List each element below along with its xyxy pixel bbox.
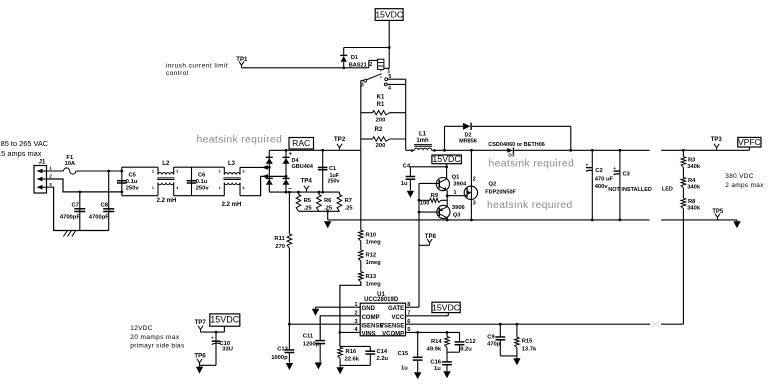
heatsink required label (diode): [489, 158, 575, 169]
wire L3 to bridge AC2: [240, 175, 287, 196]
svg-text:2 amps max: 2 amps max: [725, 182, 764, 189]
divider resistor R4 340k: [681, 167, 701, 191]
wire VCC pin to 15VDC: [406, 313, 449, 316]
svg-text:1: 1: [49, 166, 52, 171]
svg-text:J1: J1: [39, 159, 46, 165]
svg-text:VCOMP: VCOMP: [382, 331, 404, 337]
svg-text:Q2: Q2: [489, 182, 497, 188]
svg-text:340k: 340k: [687, 185, 701, 191]
svg-text:1200p: 1200p: [303, 342, 320, 348]
gap crossing mark: [652, 321, 660, 327]
svg-text:R14: R14: [431, 339, 442, 345]
chassis ground (earth hatch): [63, 231, 75, 237]
bridge rectifier D4 GBU404: [266, 149, 314, 194]
test point TP8: [419, 234, 436, 246]
svg-text:D2: D2: [464, 132, 471, 138]
svg-text:C12: C12: [465, 339, 476, 345]
capacitor C13 1000p: [271, 324, 294, 362]
svg-text:C8: C8: [101, 202, 109, 208]
svg-text:UCC28019D: UCC28019D: [364, 297, 399, 303]
svg-text:C6: C6: [198, 173, 206, 179]
svg-text:1meg: 1meg: [366, 240, 382, 246]
svg-text:3: 3: [242, 169, 244, 173]
wire 15VDC to relay coil: [388, 20, 391, 68]
capacitor C6 0.1u 250v: [187, 167, 210, 196]
capacitor C7 4700pF: [60, 192, 85, 231]
svg-text:3: 3: [473, 200, 476, 206]
alternate diode note CSD04060 or BETH06: [488, 142, 545, 148]
svg-text:C11: C11: [303, 334, 314, 340]
svg-text:470 uF: 470 uF: [595, 176, 614, 182]
wire J1 pin3 earth: [47, 187, 109, 230]
wire driver supply node: [410, 165, 448, 168]
svg-text:1000p: 1000p: [271, 355, 288, 361]
svg-text:C9: C9: [487, 334, 495, 340]
ground arrow under C16: [443, 371, 450, 378]
svg-text:Q1: Q1: [452, 175, 461, 181]
wire boost node up to D2: [445, 126, 463, 150]
svg-text:49.9k: 49.9k: [427, 346, 442, 352]
fuse F1 10A: [64, 155, 76, 174]
wire GATE pin to driver: [406, 306, 420, 308]
svg-text:C14: C14: [377, 349, 388, 355]
svg-text:TP5: TP5: [712, 209, 724, 215]
wire L2 to C6 bottom: [174, 195, 192, 197]
divider resistor R8 340k: [681, 188, 701, 212]
capacitor C9 470p: [487, 324, 505, 356]
capacitor C11 1200p: [303, 334, 325, 362]
resistor R11 270: [274, 192, 291, 324]
output rail after LED gap: [661, 149, 749, 152]
power MOSFET Q2 FDP20N50F: [464, 150, 516, 220]
svg-text:1meg: 1meg: [366, 282, 382, 288]
wire TP7 to bias node: [201, 331, 225, 334]
ISENSE line: [288, 323, 356, 326]
svg-text:33U: 33U: [222, 347, 233, 353]
svg-text:0.1u: 0.1u: [196, 179, 208, 185]
bias supply note 12VDC: [130, 325, 185, 349]
ground arrow under R16: [336, 365, 343, 374]
svg-text:GATE: GATE: [388, 306, 404, 312]
relay block left rail: [360, 81, 362, 151]
svg-text:1u: 1u: [434, 366, 441, 372]
capacitor C1 1uF 250v: [318, 150, 340, 192]
VCOMP line: [406, 331, 460, 334]
resistor R16 22.6k: [338, 346, 371, 365]
test point TP7: [195, 319, 207, 332]
output rail to LED gap: [571, 149, 650, 151]
relay K1 label: [377, 94, 385, 100]
svg-text:15VDC: 15VDC: [432, 154, 461, 164]
wire divider to VSENSE line: [661, 209, 683, 325]
svg-text:L2: L2: [162, 161, 170, 167]
bulk capacitor C2 470uF 400v: [585, 149, 613, 220]
svg-text:250v: 250v: [328, 179, 340, 185]
svg-text:R10: R10: [366, 232, 377, 238]
svg-text:TP6: TP6: [194, 353, 206, 360]
svg-text:RAC: RAC: [292, 138, 310, 148]
divider resistor R3 340k: [681, 150, 701, 170]
transistor Q1 3904: [436, 167, 467, 196]
svg-text:10A: 10A: [64, 161, 75, 167]
diode D1 BAS21: [340, 55, 367, 68]
svg-text:200: 200: [376, 118, 386, 124]
alternate boost diode D3: [507, 148, 515, 159]
svg-text:340k: 340k: [687, 205, 701, 211]
svg-text:D1: D1: [351, 55, 358, 61]
svg-text:250v: 250v: [196, 186, 210, 192]
wire C5 to L2 top: [122, 166, 158, 168]
relay actuator dashed link: [380, 70, 382, 79]
test point TP3: [711, 137, 723, 150]
svg-text:2.2u: 2.2u: [377, 356, 389, 362]
resistor R1 200: [361, 102, 406, 124]
connector J1: [34, 159, 52, 193]
svg-text:3: 3: [176, 169, 178, 173]
svg-text:R11: R11: [274, 236, 285, 242]
transistor Q3 3906: [419, 196, 466, 220]
svg-text:1: 1: [218, 186, 220, 190]
wire bridge - rail: [269, 191, 339, 194]
power ground arrow at shunt node: [324, 221, 331, 228]
svg-text:1: 1: [152, 186, 154, 190]
svg-text:470p: 470p: [487, 342, 501, 348]
svg-text:4.5 amps max: 4.5 amps max: [0, 149, 42, 158]
ground arrow under C15: [414, 372, 421, 379]
wire D2 to output rail: [472, 126, 572, 151]
svg-text:+: +: [585, 163, 588, 168]
15VDC supply box (gate driver): [432, 154, 462, 167]
source/return rail: [328, 219, 737, 222]
svg-text:C3: C3: [623, 172, 631, 178]
svg-text:3904: 3904: [453, 182, 467, 188]
svg-text:C7: C7: [72, 202, 79, 208]
svg-text:C2: C2: [595, 168, 602, 174]
svg-text:primayr side bias: primayr side bias: [130, 342, 185, 349]
svg-text:8.2u: 8.2u: [460, 346, 472, 352]
svg-text:1mh: 1mh: [416, 138, 429, 144]
wire C6 to L3 top: [192, 166, 225, 168]
common-mode choke L3 2.2mH: [218, 161, 245, 208]
capacitor C15 1u: [398, 332, 423, 372]
svg-text:VINS: VINS: [362, 331, 376, 337]
svg-text:1meg: 1meg: [366, 260, 382, 266]
wire J1 pin1 to fuse: [47, 170, 64, 172]
wire gate node to Q2: [446, 190, 467, 197]
svg-text:+: +: [211, 336, 214, 341]
svg-text:2: 2: [218, 169, 220, 173]
svg-text:K1: K1: [377, 94, 385, 100]
svg-text:100: 100: [420, 201, 429, 207]
svg-text:2.2 mH: 2.2 mH: [157, 198, 177, 204]
svg-text:R13: R13: [366, 274, 377, 280]
wire to D1 cathode: [344, 48, 390, 56]
shunt resistor R7 .25: [337, 192, 353, 211]
15VDC supply box (top): [375, 9, 403, 21]
svg-text:L3: L3: [228, 161, 236, 167]
capacitor C16 1u: [430, 352, 452, 372]
wire C6 to L3 bottom: [192, 195, 225, 197]
svg-text:TP4: TP4: [301, 177, 313, 184]
output ground arrow: [733, 220, 740, 228]
svg-text:1u: 1u: [401, 365, 408, 371]
capacitor C14 2.2u: [365, 346, 388, 365]
ground arrow under R15: [513, 356, 520, 365]
C9/R15 bottom bar: [500, 355, 517, 357]
svg-text:C16: C16: [430, 360, 441, 366]
boost inductor L1 1mh: [411, 132, 437, 153]
svg-text:2: 2: [369, 62, 372, 68]
VSENSE line: [406, 323, 651, 326]
resistor R9 100: [419, 193, 447, 207]
wire C10 to TP6: [200, 364, 217, 366]
wire divider to VINS: [339, 282, 361, 347]
resistor R2 200: [361, 127, 406, 149]
svg-text:15VDC: 15VDC: [210, 315, 240, 325]
svg-text:15VDC: 15VDC: [432, 303, 460, 313]
bridge AC2 pin arrow: [262, 174, 268, 179]
common-mode choke L2 2.2mH: [152, 161, 179, 204]
svg-text:1u: 1u: [401, 181, 408, 187]
svg-text:R8: R8: [688, 199, 696, 205]
resistor R14 49.9k: [427, 332, 450, 352]
divider resistor R13 1meg: [359, 261, 382, 288]
15VDC supply box (bias): [210, 314, 240, 332]
wire relay common to left rail: [361, 80, 364, 82]
svg-text:VPFC: VPFC: [738, 137, 761, 147]
svg-text:C15: C15: [398, 351, 409, 357]
net label box VPFC: [738, 137, 761, 150]
svg-text:2: 2: [473, 176, 476, 182]
svg-text:340k: 340k: [687, 164, 701, 170]
svg-text:C1: C1: [329, 166, 336, 172]
wire GND pin to ground: [316, 307, 356, 309]
svg-text:4700pF: 4700pF: [89, 215, 109, 221]
svg-text:MR856: MR856: [459, 139, 477, 145]
svg-text:Q3: Q3: [453, 213, 462, 219]
svg-text:.25: .25: [304, 205, 313, 211]
capacitor C5 0.1u 250v: [117, 167, 139, 196]
test point TP1: [236, 57, 248, 68]
svg-text:GBU404: GBU404: [292, 164, 314, 170]
svg-text:GND: GND: [362, 306, 376, 312]
svg-text:NOT INSTALLED: NOT INSTALLED: [608, 187, 652, 193]
svg-text:TP2: TP2: [334, 136, 346, 143]
svg-text:R5: R5: [304, 198, 312, 204]
wire right rail to L1: [406, 149, 415, 151]
wire Q1 base rail: [419, 182, 439, 184]
svg-text:COMP: COMP: [362, 315, 380, 321]
net label box RAC: [289, 138, 314, 150]
svg-text:2.2 mH: 2.2 mH: [222, 202, 242, 208]
wire C5 to L2 bottom: [122, 195, 158, 197]
ground arrow at TP6: [196, 365, 203, 373]
test point TP5: [712, 209, 724, 220]
svg-text:22.6k: 22.6k: [345, 357, 360, 363]
svg-text:3: 3: [49, 182, 52, 187]
svg-text:inrush current limit: inrush current limit: [166, 62, 228, 69]
svg-text:20 mamps max: 20 mamps max: [130, 334, 180, 341]
wire shunt node to source rail: [327, 211, 329, 220]
svg-text:TP1: TP1: [236, 57, 248, 63]
gate drive rail: [418, 183, 421, 307]
wire J1 pin2 (N) to C5: [47, 170, 124, 194]
test point TP4: [301, 177, 313, 192]
boost diode D2 MR856: [459, 123, 477, 145]
svg-text:13.7k: 13.7k: [522, 346, 537, 352]
ground arrow at GND pin: [312, 309, 319, 316]
heatsink required label (bridge): [197, 134, 283, 145]
svg-text:200: 200: [376, 143, 386, 149]
LED net note: [662, 186, 673, 192]
wire COMP pin to C11: [320, 316, 356, 340]
svg-text:.25: .25: [345, 205, 354, 211]
ground arrow under C4: [407, 191, 414, 198]
svg-text:heatsink required: heatsink required: [197, 134, 283, 145]
capacitor C10 33U: [211, 332, 233, 365]
svg-text:R2: R2: [375, 127, 383, 133]
divider resistor R12 1meg: [359, 241, 382, 266]
wire TP1 to relay coil pin2: [242, 60, 378, 69]
inrush current limit control note: [166, 62, 228, 76]
controller U1 UCC28019D: [354, 292, 411, 337]
svg-text:4: 4: [388, 86, 391, 92]
svg-text:2: 2: [152, 169, 154, 173]
svg-text:185 to 265 VAC: 185 to 265 VAC: [0, 139, 49, 148]
svg-text:R3: R3: [688, 157, 696, 163]
wire L line fuse to C5: [76, 170, 122, 173]
relay contacts 3-5-4: [361, 74, 392, 92]
R16/C14 bottom bar: [340, 364, 370, 366]
svg-text:C13: C13: [277, 347, 288, 353]
heatsink required label (mosfet): [487, 200, 573, 211]
shunt resistor R5 .25: [296, 192, 312, 211]
svg-text:FDP20N50F: FDP20N50F: [485, 190, 516, 196]
svg-text:TP7: TP7: [195, 319, 207, 326]
svg-text:VSENSE: VSENSE: [380, 323, 404, 329]
svg-text:+: +: [613, 167, 616, 172]
svg-text:12VDC: 12VDC: [130, 325, 152, 332]
wire L1 to boost node: [432, 149, 508, 152]
wire bridge + rail to relay block: [269, 149, 361, 152]
svg-text:3906: 3906: [452, 205, 466, 211]
svg-text:4700pF: 4700pF: [60, 215, 80, 221]
wire L3 to bridge AC1: [240, 166, 271, 169]
svg-text:control: control: [166, 70, 189, 77]
svg-text:R12: R12: [366, 253, 377, 259]
svg-text:400v: 400v: [595, 184, 609, 190]
svg-text:R16: R16: [346, 349, 357, 355]
output rating note 380 VDC 2 amps max: [725, 173, 764, 189]
svg-text:R4: R4: [688, 178, 696, 184]
svg-text:380 VDC: 380 VDC: [725, 173, 753, 180]
svg-text:R6: R6: [324, 198, 332, 204]
svg-text:TP8: TP8: [425, 234, 437, 240]
relay K1 coil: [369, 59, 390, 74]
svg-text:1: 1: [411, 148, 414, 153]
R14/C12 bottom bar: [447, 351, 460, 353]
capacitor C8 4700pF: [89, 171, 114, 231]
svg-text:L1: L1: [419, 132, 427, 138]
svg-text:R7: R7: [345, 198, 352, 204]
svg-text:C4: C4: [403, 164, 411, 170]
svg-text:CSD04060 or BETH06: CSD04060 or BETH06: [488, 142, 545, 148]
ground arrow under C13: [286, 363, 293, 370]
wire VINS pin: [340, 331, 356, 333]
svg-text:LED: LED: [662, 186, 673, 192]
wire D3 to output node: [513, 149, 570, 151]
bridge AC1 pin arrow: [262, 165, 268, 170]
test point TP6: [194, 353, 206, 366]
svg-text:+: +: [288, 150, 292, 157]
capacitor C3 (not installed): [613, 149, 630, 220]
svg-text:TP3: TP3: [711, 137, 723, 143]
ground arrow under C11: [315, 362, 322, 369]
NOT INSTALLED note: [608, 187, 652, 193]
svg-text:heatsink required: heatsink required: [487, 200, 573, 211]
svg-text:270: 270: [275, 244, 285, 250]
shunt bottom bar: [299, 210, 340, 213]
svg-text:0.1u: 0.1u: [126, 179, 138, 185]
svg-text:R1: R1: [377, 102, 385, 108]
shunt resistor R6 .25: [317, 192, 333, 211]
svg-text:250v: 250v: [126, 186, 140, 192]
capacitor C4 1u: [401, 164, 415, 191]
capacitor C12 8.2u: [455, 332, 476, 352]
svg-text:2: 2: [49, 174, 52, 179]
test point TP2: [334, 136, 346, 151]
svg-text:15VDC: 15VDC: [375, 10, 403, 20]
svg-text:1: 1: [454, 190, 457, 196]
relay block right rail: [405, 79, 407, 150]
note: input voltage rating text: [0, 139, 49, 158]
divider resistor R10 1meg: [359, 150, 382, 245]
svg-text:VCC: VCC: [392, 315, 405, 321]
wire relay contacts to right rail: [387, 79, 406, 84]
wire L2 to C6 top: [174, 166, 192, 168]
svg-text:C5: C5: [129, 173, 137, 179]
svg-text:heatsink required: heatsink required: [489, 158, 575, 169]
15VDC supply box (VCC): [432, 302, 460, 312]
svg-text:R15: R15: [522, 339, 533, 345]
resistor R15 13.7k: [515, 324, 537, 356]
